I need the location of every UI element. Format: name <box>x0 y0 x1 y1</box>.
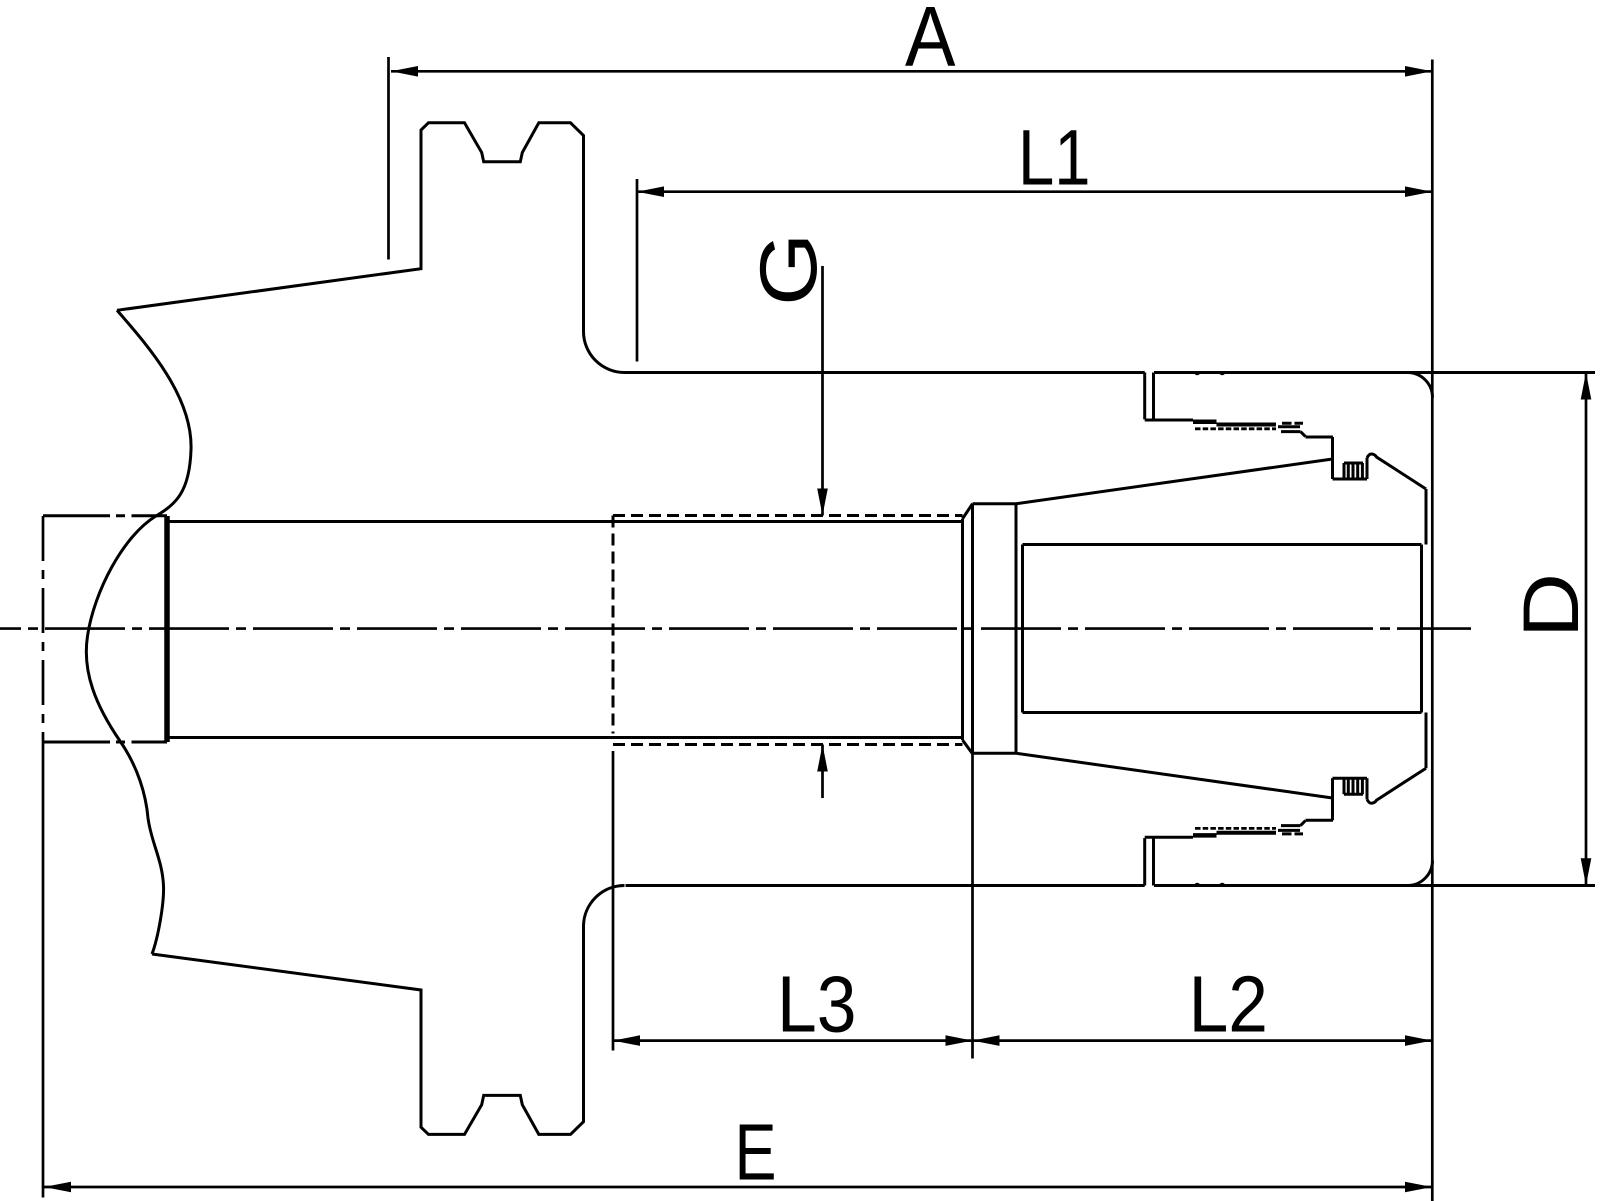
svg-text:L1: L1 <box>1018 114 1091 202</box>
svg-text:A: A <box>905 0 956 85</box>
svg-text:G: G <box>744 233 834 307</box>
svg-text:L2: L2 <box>1189 960 1268 1049</box>
svg-text:E: E <box>735 1108 777 1197</box>
svg-text:D: D <box>1507 573 1595 638</box>
svg-text:L3: L3 <box>777 960 857 1049</box>
